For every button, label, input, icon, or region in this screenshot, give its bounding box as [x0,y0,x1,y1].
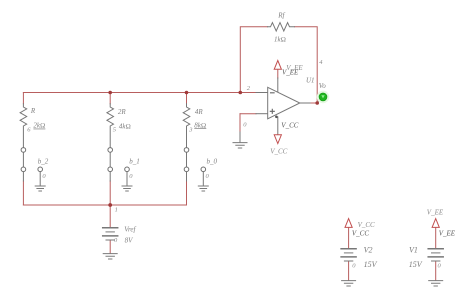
svg-text:Vref: Vref [124,225,136,233]
svg-text:8V: 8V [125,236,134,244]
svg-text:Rf: Rf [277,12,285,20]
svg-text:1: 1 [115,207,118,214]
svg-text:8kΩ: 8kΩ [194,121,206,129]
svg-text:3: 3 [188,126,193,133]
svg-text:b_2: b_2 [38,158,49,166]
svg-text:15V: 15V [364,260,378,269]
svg-text:V_EE: V_EE [282,68,299,76]
svg-text:V_CC: V_CC [352,230,369,238]
svg-text:V_EE: V_EE [439,230,456,238]
svg-text:V_CC: V_CC [270,147,287,155]
svg-text:V_CC: V_CC [281,121,298,129]
svg-text:b_1: b_1 [129,158,140,166]
svg-text:2R: 2R [118,108,127,116]
svg-text:V_EE: V_EE [427,208,444,216]
svg-text:1kΩ: 1kΩ [274,36,286,44]
svg-text:Vo: Vo [319,82,327,90]
svg-text:4R: 4R [195,108,204,116]
svg-text:4kΩ: 4kΩ [119,122,131,130]
svg-text:15V: 15V [409,260,423,269]
svg-text:R: R [30,107,36,115]
svg-text:V_CC: V_CC [358,221,375,229]
svg-text:V2: V2 [364,246,373,255]
svg-text:V1: V1 [409,246,418,255]
svg-text:b_0: b_0 [207,158,218,166]
svg-text:U1: U1 [306,76,315,84]
svg-text:2kΩ: 2kΩ [33,122,45,130]
